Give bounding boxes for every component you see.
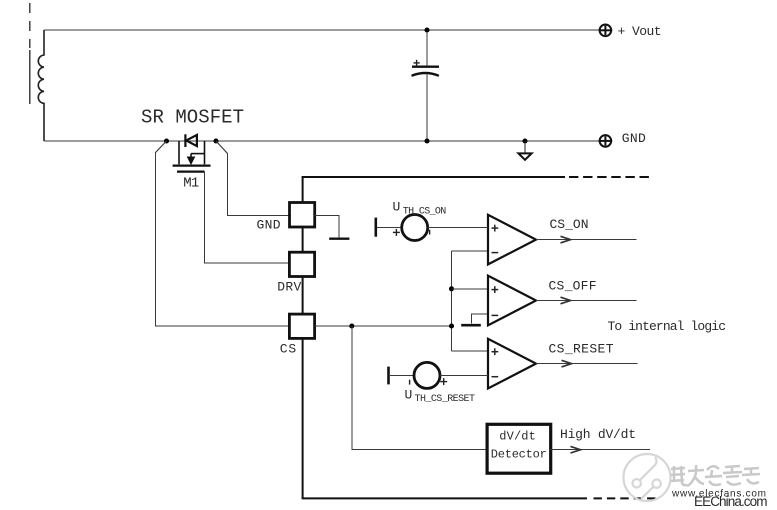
node dot bottom cap	[424, 138, 429, 143]
transistor M1	[173, 141, 211, 172]
source V_TH_CS_RESET	[387, 367, 390, 385]
node dot CS branch	[349, 323, 354, 328]
wire CS_RESET output	[536, 363, 638, 365]
transformer core dashed line	[29, 3, 31, 48]
wire CS net horizontal	[315, 325, 452, 327]
bus bottom solid	[302, 497, 587, 499]
svg-text:TH_CS_ON: TH_CS_ON	[403, 207, 447, 218]
svg-text:CS_OFF: CS_OFF	[549, 279, 597, 294]
wire CS to dV/dt detector	[352, 326, 487, 450]
bus top solid	[302, 176, 565, 178]
wire bottom rail	[44, 140, 600, 142]
source V_TH_CS_ON	[374, 218, 377, 237]
wire detector output	[551, 449, 650, 451]
pin box DRV	[289, 252, 314, 276]
op-amp CS_RESET comparator	[488, 339, 536, 389]
body diode of M1	[185, 134, 197, 147]
svg-text:U: U	[393, 200, 401, 215]
ground bar symbol	[329, 237, 349, 239]
capacitor + polarity	[414, 60, 420, 66]
node dot gnd arrow	[522, 138, 527, 143]
wire GND pin to ground	[315, 216, 340, 238]
wire CS comparator spine	[451, 251, 453, 351]
svg-text:GND: GND	[622, 131, 646, 146]
svg-text:High dV/dt: High dV/dt	[560, 427, 636, 442]
svg-text:GND: GND	[257, 218, 281, 233]
node dot top cap	[424, 27, 429, 32]
winding L secondary	[38, 30, 44, 141]
ground arrow symbol	[524, 141, 526, 153]
wire top rail	[44, 29, 600, 31]
wire CS_ON output	[536, 239, 637, 241]
svg-text:CS_ON: CS_ON	[550, 217, 589, 232]
dV/dt Detector block	[487, 424, 551, 473]
watermark logo circle	[624, 454, 671, 501]
svg-text:dV/dt: dV/dt	[499, 430, 536, 444]
wire source to GND pin	[216, 141, 228, 154]
pin box GND	[290, 203, 315, 228]
svg-text:+ Vout: + Vout	[618, 24, 662, 39]
svg-text:To internal logic: To internal logic	[608, 319, 727, 334]
wire gate to DRV pin	[205, 172, 290, 263]
svg-text:CS_RESET: CS_RESET	[549, 342, 614, 357]
terminal + Vout	[599, 25, 613, 37]
svg-text:U: U	[405, 387, 413, 402]
bus top dashed	[569, 176, 649, 178]
svg-text:EEChina.com: EEChina.com	[694, 494, 768, 509]
bus bottom dashed	[594, 497, 661, 499]
op-amp CS_ON comparator	[488, 215, 536, 265]
wire comp2 plus	[452, 288, 489, 290]
svg-text:TH_CS_RESET: TH_CS_RESET	[415, 394, 476, 405]
IC vertical spine	[302, 177, 304, 498]
node dot CS cross	[449, 323, 454, 328]
wire drain to CS pin	[156, 141, 167, 153]
svg-text:M1: M1	[183, 176, 199, 192]
wire comp3 plus	[452, 350, 489, 352]
svg-text:Detector: Detector	[491, 448, 547, 462]
node dot mosfet source	[213, 138, 218, 143]
wire comp1 minus	[452, 250, 489, 252]
node dot mosfet drain	[164, 138, 169, 143]
transformer core solid line	[29, 50, 31, 104]
svg-text:SR MOSFET: SR MOSFET	[141, 107, 244, 129]
capacitor C out wires	[426, 30, 428, 66]
watermark chinese text	[671, 465, 760, 486]
terminal GND	[599, 135, 613, 147]
op-amp CS_OFF comparator	[488, 276, 536, 326]
comp2 minus offset step	[471, 314, 488, 323]
svg-text:DRV: DRV	[277, 280, 301, 295]
capacitor C plates	[412, 67, 440, 76]
node dot comp2 plus	[449, 286, 454, 291]
pin box CS	[289, 314, 314, 338]
svg-text:CS: CS	[280, 342, 297, 357]
wire CS_OFF output	[536, 300, 637, 302]
